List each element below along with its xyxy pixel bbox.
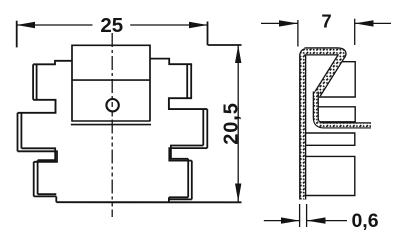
plate bottom edge (double) (71, 120, 150, 122)
middle-left tab (double edge) (17, 113, 19, 152)
sheet-metal top clip fold lower part: core (316, 92, 371, 126)
plate fold line (72, 79, 150, 81)
sheet-metal top clip fold lower part: hatching (316, 92, 371, 126)
lower bent tab face (306, 156, 355, 195)
dimension 7: left arrow line (261, 22, 298, 24)
middle bent tab face lower part (306, 133, 355, 145)
foot step (55, 196, 57, 202)
middle-right tab bottom (double) (171, 146, 203, 159)
dimension 7: right extension line (354, 19, 356, 45)
dimension 25: left extension line (16, 21, 18, 48)
dimension 0,6: right arrow line (307, 220, 347, 222)
sheet-metal main plate: hatching (303, 51, 308, 199)
body bottom edge (merges with 20,5 extension line) (56, 201, 241, 203)
sheet-metal top clip fold lower part (section, hatched): borders (316, 92, 371, 126)
dimension 25: right dimension line with arrow (130, 24, 207, 26)
dimension 25: right extension line (207, 22, 209, 46)
dimension 7: left extension line (297, 20, 299, 47)
sheet-metal top clip fold upper part: core (305, 51, 343, 94)
centerline (vertical dash-dot, upper) (111, 33, 113, 107)
svg-text:0,6: 0,6 (351, 210, 378, 232)
centerline (vertical dash-dot, lower) (111, 113, 113, 218)
sheet-metal main plate: core (303, 51, 308, 199)
dimension 25: left dimension line with arrow (17, 24, 93, 26)
middle bent tab face upper part (317, 107, 355, 122)
upper-right tab (double edge) (186, 64, 188, 98)
lower-right tab (double edge) (187, 159, 189, 198)
upper bent tab face (319, 62, 355, 97)
middle-left tab bottom (double) (21, 148, 55, 160)
body top edge right (150, 59, 192, 65)
middle-right tab (double edge) (202, 109, 204, 145)
dimension 0,6: extension lines (299, 204, 301, 227)
lower-right foot step (168, 197, 170, 202)
dimension 0,6: left arrow line (264, 220, 300, 222)
dimension 7: right arrow line (355, 22, 391, 24)
lower-right foot bottom (double) (169, 196, 188, 198)
mounting plate outline (72, 45, 150, 121)
dimension 20,5: top extension line (208, 44, 242, 46)
sheet-metal top clip fold upper part (section, hatched): borders (305, 51, 343, 94)
svg-text:7: 7 (321, 11, 331, 32)
lower-left foot bottom (double) (38, 193, 57, 195)
upper-right notch (169, 98, 207, 109)
upper-left notch (18, 100, 56, 113)
lower-left tab (double edge) (37, 160, 39, 194)
svg-text:20,5: 20,5 (220, 102, 242, 145)
sheet-metal top clip fold upper part: hatching (305, 51, 343, 94)
mounting hole (106, 99, 118, 111)
upper-left tab (double edge) (32, 64, 34, 99)
dimension 20,5: dimension line with arrows (237, 45, 239, 201)
sheet-metal main plate (section, hatched): borders (303, 51, 308, 199)
body top edge left (33, 61, 72, 65)
